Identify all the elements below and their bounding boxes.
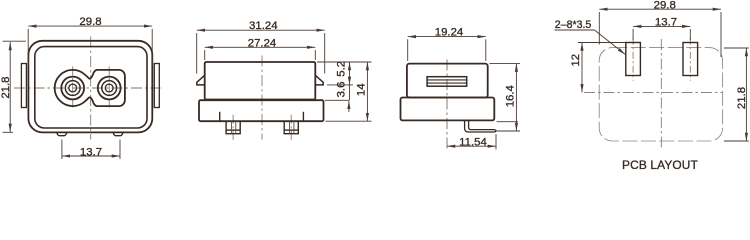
dim 14	[366, 62, 368, 121]
svg-text:PCB LAYOUT: PCB LAYOUT	[622, 158, 698, 170]
dim 12 pcb	[578, 43, 626, 93]
dim 5.2 / 3.6 line	[348, 62, 351, 112]
dim 27.24	[205, 47, 316, 60]
dim 31.24	[197, 30, 325, 73]
foot right	[113, 132, 123, 135]
svg-text:14: 14	[355, 83, 367, 96]
pcb outline dashed	[599, 48, 722, 141]
pad left	[626, 43, 641, 76]
base view2	[199, 100, 324, 121]
dim 13.7 view1	[62, 140, 120, 160]
L pin view3	[465, 121, 496, 132]
centerline pin1 view2	[232, 115, 234, 140]
svg-text:3.6: 3.6	[335, 82, 347, 98]
tab left view2	[197, 75, 205, 85]
centerline pin left vertical	[72, 67, 74, 110]
pcb h centerline	[584, 91, 723, 93]
slot view3	[427, 77, 467, 87]
svg-text:13.7: 13.7	[655, 16, 677, 28]
centerline vertical view1 main	[90, 37, 92, 140]
svg-text:11.54: 11.54	[459, 136, 487, 148]
svg-text:13.7: 13.7	[80, 147, 102, 159]
pin left rings	[61, 77, 84, 100]
centerline pin2 view2	[290, 115, 292, 140]
pin1 view2	[226, 121, 240, 134]
svg-text:19.24: 19.24	[435, 27, 464, 39]
centerline vertical view2	[261, 56, 263, 140]
dim 11.54	[447, 134, 496, 150]
svg-text:21.8: 21.8	[736, 87, 748, 109]
pad right centerline	[689, 38, 691, 81]
slot inner lines	[427, 79, 467, 81]
dim 16.4	[490, 64, 521, 131]
centerline horizontal view1	[14, 87, 161, 89]
dim 21.8 view1	[3, 41, 27, 132]
dim 19.24	[408, 37, 486, 61]
svg-text:2–8*3.5: 2–8*3.5	[555, 19, 592, 31]
svg-text:29.8: 29.8	[79, 16, 101, 28]
body outer rounded rect	[28, 41, 152, 133]
pad right	[683, 43, 698, 76]
svg-text:12: 12	[570, 54, 582, 67]
centerline vertical view3	[446, 60, 448, 150]
dim 29.8 pcb	[599, 9, 721, 57]
svg-text:5.2: 5.2	[335, 61, 347, 77]
base inner line left	[219, 112, 221, 121]
base view3	[401, 98, 495, 121]
tab right view2	[315, 75, 323, 85]
figure-8 cutout	[55, 70, 125, 106]
dim 21.8 pcb	[724, 48, 749, 141]
dim 29.8 view1	[28, 26, 152, 66]
side tab left	[21, 64, 26, 108]
svg-text:16.4: 16.4	[505, 85, 517, 107]
pin right rings	[98, 77, 121, 100]
pad left centerline	[632, 38, 634, 81]
pcb v centerline	[660, 39, 662, 148]
svg-text:29.8: 29.8	[654, 0, 676, 11]
svg-text:21.8: 21.8	[0, 77, 12, 99]
body view3	[407, 64, 488, 98]
side tab right	[154, 64, 159, 108]
base inner line right	[302, 112, 304, 121]
svg-text:27.24: 27.24	[248, 37, 277, 49]
centerline pin right vertical	[108, 67, 110, 110]
dim 13.7 pcb	[633, 26, 690, 40]
foot left	[57, 132, 67, 135]
ext line base bottom right	[497, 121, 519, 123]
pin2 view2	[284, 121, 298, 134]
body inner rounded rect	[35, 47, 147, 128]
svg-text:31.24: 31.24	[249, 20, 278, 32]
ext lines right of view2	[317, 62, 372, 121]
body view2	[205, 62, 316, 100]
